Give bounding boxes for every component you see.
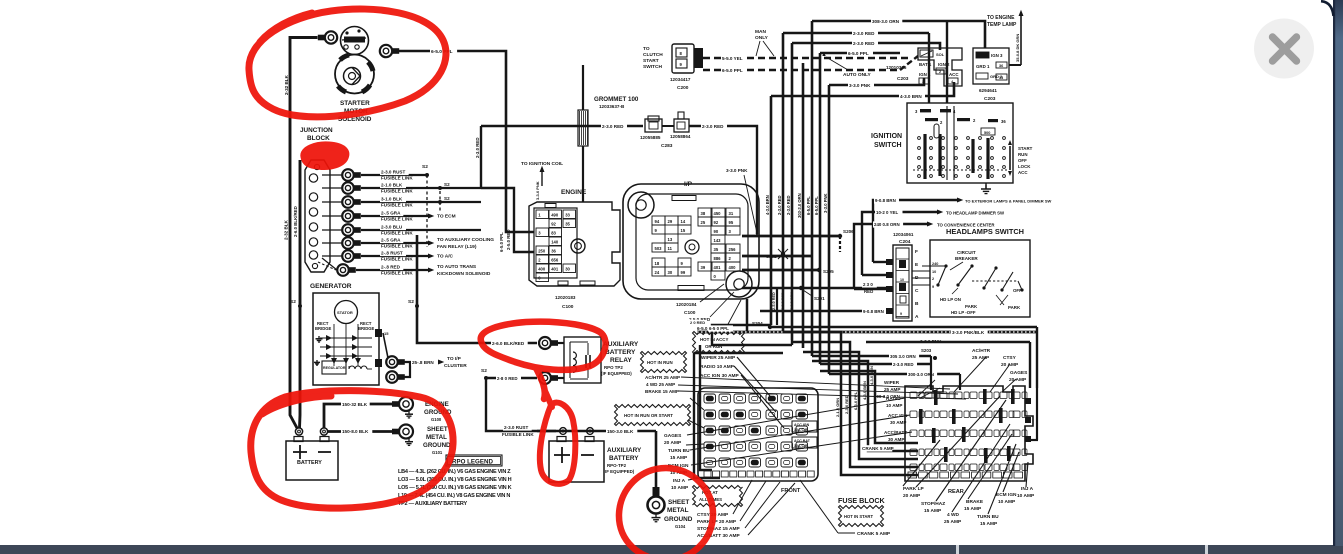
wire fusible link 2-.5 GRA [361, 242, 428, 244]
svg-text:RADIO 10 AMP: RADIO 10 AMP [700, 364, 735, 370]
bottom toolbar bar [0, 545, 1343, 554]
svg-text:CLUTCH: CLUTCH [643, 52, 663, 58]
svg-text:LB4 — 4.3L (262 CU. IN.) V6 GA: LB4 — 4.3L (262 CU. IN.) V6 GAS ENGINE V… [398, 469, 511, 475]
bus wire 3-3.0 PNK vertical [828, 85, 831, 374]
wire 2-32 BLK from starter to battery [290, 38, 318, 429]
ring terminal at starter battery stud [325, 31, 337, 43]
svg-text:30 AMP: 30 AMP [888, 437, 904, 442]
red annotation circle aux battery relay [481, 322, 606, 370]
crank 5 amp leader [800, 480, 838, 533]
connector 12010366 C203 [918, 48, 962, 86]
bus wire 303-3.0 ORN vertical [802, 63, 805, 348]
svg-text:CLUSTER: CLUSTER [444, 363, 467, 369]
svg-text:25-.8 BRN: 25-.8 BRN [412, 360, 434, 365]
fuse block circuit breaker boxes [792, 421, 817, 432]
svg-text:METAL: METAL [426, 434, 447, 441]
svg-text:C100: C100 [562, 304, 574, 310]
svg-text:GROUND: GROUND [664, 516, 693, 523]
svg-text:S2: S2 [290, 299, 296, 305]
node S2 generator left [298, 304, 302, 308]
svg-text:METAL: METAL [667, 507, 689, 514]
svg-text:140: 140 [551, 240, 559, 245]
red annotation circle starter motor [249, 9, 446, 117]
svg-text:3-3.0 PNK/BLK: 3-3.0 PNK/BLK [952, 330, 985, 335]
svg-text:IGN 2: IGN 2 [938, 62, 950, 67]
svg-text:C100: C100 [684, 310, 696, 316]
svg-text:SHEET: SHEET [668, 499, 689, 506]
node S2 relay branch [484, 376, 488, 380]
connector 6294641 C203 [973, 48, 1009, 84]
wire 3-3.0 PNK [829, 78, 924, 85]
svg-text:33: 33 [565, 213, 570, 218]
svg-text:OFF: OFF [1013, 288, 1022, 293]
svg-text:6-5.0 PPL: 6-5.0 PPL [848, 51, 869, 56]
junction block jumper dashed [318, 262, 336, 270]
wire 300-3.0 ORN [829, 373, 960, 375]
svg-text:12055885: 12055885 [640, 135, 661, 140]
svg-text:20 AMP: 20 AMP [1009, 377, 1027, 383]
svg-text:PARK LP: PARK LP [903, 486, 924, 492]
svg-text:STOP/HAZ: STOP/HAZ [921, 501, 945, 507]
junction block body [305, 160, 330, 272]
svg-text:143: 143 [714, 238, 722, 243]
wire 6-5.0 PPL dashed [703, 69, 780, 72]
svg-text:2-5.0 RED: 2-5.0 RED [772, 292, 776, 310]
fusible link ring terminal row 4 [322, 215, 342, 217]
svg-text:HOT IN ACCY: HOT IN ACCY [700, 337, 728, 342]
svg-text:START: START [1018, 146, 1033, 151]
svg-text:FUSIBLE LINK: FUSIBLE LINK [381, 176, 413, 181]
svg-text:15 AMP: 15 AMP [670, 455, 688, 461]
connector 12058864 [674, 119, 689, 132]
svg-text:GENERATOR: GENERATOR [310, 283, 352, 290]
svg-text:TP2 — AUXILIARY BATTERY: TP2 — AUXILIARY BATTERY [398, 501, 467, 507]
svg-text:150-32 BLK: 150-32 BLK [342, 402, 368, 407]
svg-text:2-3.0 RED: 2-3.0 RED [475, 138, 480, 159]
svg-text:30 AMP: 30 AMP [890, 420, 906, 425]
svg-text:S2: S2 [444, 182, 450, 187]
svg-text:BREAKER: BREAKER [955, 256, 978, 261]
I/P output wires [742, 235, 840, 238]
hot in accy or run callout [693, 332, 745, 354]
svg-text:24: 24 [655, 270, 660, 275]
svg-text:AC/HTR: AC/HTR [972, 348, 991, 354]
svg-text:MAN: MAN [755, 29, 766, 35]
aux battery terminal screws [560, 428, 567, 435]
svg-text:SHEET: SHEET [427, 426, 448, 433]
wire junction block left feed 2-6.0 BLK/RED [298, 160, 301, 428]
svg-text:13: 13 [668, 237, 673, 242]
svg-text:JUNCTION: JUNCTION [300, 127, 333, 134]
svg-text:303-3.0 ORN: 303-3.0 ORN [797, 193, 802, 218]
svg-text:4 WD: 4 WD [947, 512, 960, 518]
node S202 [781, 252, 785, 256]
wire 2-6.0 BLK/RED to relay [417, 235, 537, 343]
svg-text:ECM IGN: ECM IGN [996, 492, 1017, 498]
svg-text:450: 450 [714, 211, 722, 216]
auxiliary battery B2 [549, 441, 604, 482]
svg-text:12020184: 12020184 [676, 302, 697, 307]
svg-text:4-3.0 BRN: 4-3.0 BRN [869, 366, 874, 385]
svg-text:94: 94 [655, 219, 660, 224]
svg-text:2: 2 [939, 70, 941, 74]
wire 10-2.0 YEL headlamp dimmer [862, 212, 937, 275]
svg-text:2-3.0 RED: 2-3.0 RED [893, 362, 914, 367]
svg-text:HOT IN RUN: HOT IN RUN [647, 360, 673, 365]
wire down to sheet metal ground G104 [655, 431, 658, 494]
svg-text:6-5.0 PPL: 6-5.0 PPL [806, 196, 811, 215]
svg-text:FUSIBLE LINK: FUSIBLE LINK [381, 271, 413, 276]
bus wire 2-3.0 RED vertical [782, 33, 785, 332]
svg-text:S2: S2 [408, 299, 414, 305]
svg-text:4-3.0 BRN: 4-3.0 BRN [900, 94, 922, 99]
svg-text:TEMP LAMP: TEMP LAMP [987, 22, 1017, 28]
svg-text:150-8.0 BLK: 150-8.0 BLK [342, 429, 369, 434]
svg-text:IF EQUIPPED): IF EQUIPPED) [605, 469, 635, 474]
red annotation scribble junction block [303, 144, 347, 168]
svg-text:95: 95 [729, 220, 734, 225]
wire fusible link 2-.8 RED [356, 269, 428, 271]
svg-text:GAGES: GAGES [664, 433, 682, 439]
svg-text:C200: C200 [677, 85, 689, 91]
bus wire 4-3.0 BRN vertical [770, 96, 773, 325]
svg-text:12020183: 12020183 [555, 295, 576, 300]
svg-text:PARK: PARK [965, 304, 978, 309]
fusible link ring terminal row 3 [322, 201, 342, 203]
svg-text:99: 99 [681, 270, 686, 275]
svg-text:AUXILIARY: AUXILIARY [607, 447, 642, 454]
dashed wire to ignition connector [780, 69, 900, 72]
svg-text:6-5.0 PPL: 6-5.0 PPL [814, 196, 819, 215]
svg-text:10-2 0 YEL: 10-2 0 YEL [876, 210, 898, 215]
svg-text:CIRCUIT: CIRCUIT [957, 250, 976, 255]
svg-text:FUSIBLE LINK: FUSIBLE LINK [381, 244, 413, 249]
svg-text:RELAY: RELAY [610, 357, 632, 364]
svg-text:AUTO ONLY: AUTO ONLY [843, 72, 872, 78]
battery B1 [286, 441, 338, 480]
svg-text:C203: C203 [897, 76, 909, 82]
svg-text:TO ECM: TO ECM [437, 214, 456, 220]
fusible link ring terminal row 5 [322, 229, 342, 231]
svg-text:36: 36 [551, 249, 556, 254]
ring terminal sheet metal ground G104 [648, 497, 665, 514]
svg-text:TO: TO [643, 46, 650, 52]
svg-text:3-3.0 PNK: 3-3.0 PNK [849, 83, 871, 88]
svg-text:2-1.0 ORN: 2-1.0 ORN [835, 398, 840, 417]
svg-text:12058864: 12058864 [670, 134, 691, 139]
svg-text:25 AMP: 25 AMP [884, 387, 900, 392]
svg-text:15: 15 [384, 331, 389, 336]
wire 308-3.0 ORN [812, 21, 985, 48]
svg-text:BATTERY: BATTERY [297, 460, 322, 466]
close button [1254, 19, 1314, 79]
svg-text:15: 15 [681, 228, 686, 233]
svg-text:(IF EQUIPPED): (IF EQUIPPED) [601, 371, 632, 376]
svg-text:92: 92 [551, 222, 556, 227]
svg-text:GROUND: GROUND [423, 442, 451, 449]
fuse block REAR [905, 386, 1033, 481]
node S2 generator right [415, 304, 419, 308]
svg-text:WIPER: WIPER [884, 380, 900, 385]
svg-text:BATTERY: BATTERY [609, 455, 639, 462]
svg-text:92: 92 [714, 220, 719, 225]
svg-text:STARTER: STARTER [340, 100, 370, 107]
svg-text:240: 240 [932, 262, 938, 266]
svg-text:35-0.8 DK GRN: 35-0.8 DK GRN [1015, 34, 1020, 62]
svg-text:2-3.0 RUST: 2-3.0 RUST [381, 170, 405, 175]
wire right side down [770, 326, 1037, 328]
starter motor solenoid [341, 27, 369, 55]
svg-text:10: 10 [932, 270, 936, 274]
hot in run or start callout [615, 405, 691, 426]
bus wire 2-3.0 RED vertical 2 [791, 43, 794, 340]
svg-text:10 AMP: 10 AMP [886, 403, 902, 408]
svg-text:9: 9 [900, 312, 902, 316]
svg-text:240 0.8 ORN: 240 0.8 ORN [874, 222, 900, 227]
svg-text:PARK LP 20 AMP: PARK LP 20 AMP [697, 519, 737, 525]
svg-text:HEADLAMPS SWITCH: HEADLAMPS SWITCH [946, 227, 1024, 236]
fusible link ring terminal row 1 [322, 174, 342, 176]
rectifier diodes [320, 337, 372, 339]
svg-text:TURN BU: TURN BU [668, 448, 690, 454]
generator body [313, 293, 379, 385]
svg-text:F: F [915, 249, 918, 255]
wire 305-3.0 ORN to fuse block [812, 355, 931, 357]
ignition switch ground [985, 183, 987, 189]
wire 25-.8 BRN to I/P cluster [404, 361, 436, 363]
svg-text:CTSY: CTSY [1003, 355, 1017, 361]
svg-text:2-.8 RUST: 2-.8 RUST [381, 251, 403, 256]
svg-text:2 0 RED: 2 0 RED [690, 320, 705, 325]
svg-text:TO ENGINE: TO ENGINE [987, 15, 1015, 21]
svg-text:S203: S203 [921, 348, 932, 353]
svg-text:656: 656 [551, 258, 559, 263]
svg-text:12033637-B: 12033637-B [599, 104, 625, 109]
svg-text:12010366: 12010366 [886, 65, 907, 70]
svg-text:ACC: ACC [1018, 170, 1028, 175]
svg-text:2-3.0 RED: 2-3.0 RED [602, 124, 624, 129]
svg-text:S2: S2 [481, 368, 487, 374]
dashed stub below S2 node [426, 175, 428, 247]
fuse block FRONT [698, 388, 818, 481]
svg-text:33: 33 [999, 76, 1003, 80]
svg-text:TURN BU: TURN BU [977, 514, 999, 520]
wire 2-3.0 RED to C204 [742, 287, 886, 290]
svg-text:4 WD 25 AMP: 4 WD 25 AMP [646, 382, 675, 387]
svg-text:TO A/C: TO A/C [437, 254, 454, 260]
svg-text:WIPER 25 AMP: WIPER 25 AMP [701, 355, 736, 361]
svg-text:AC/HTR 25 AMP: AC/HTR 25 AMP [645, 375, 680, 380]
wire 4-3.0 BRN [771, 82, 954, 96]
svg-text:GRD 1: GRD 1 [976, 64, 990, 69]
RPO legend box [446, 455, 502, 466]
svg-text:3-3.0 PNK: 3-3.0 PNK [823, 193, 828, 213]
wires into ignition switch [928, 33, 930, 103]
svg-text:15 AMP: 15 AMP [980, 521, 998, 527]
battery terminal + [295, 428, 302, 435]
wire 2-3.0 RED lower [792, 43, 940, 50]
ring terminal starter solenoid feed [380, 45, 392, 57]
svg-text:RPO-TP2: RPO-TP2 [607, 463, 627, 468]
svg-text:90: 90 [714, 229, 719, 234]
hot in run callout [641, 352, 687, 373]
wire 2-3.0 RUST fusible link [503, 424, 532, 430]
svg-text:886: 886 [714, 256, 722, 261]
wire 2-8.0 RED to relay lower [486, 377, 537, 379]
svg-text:KICKDOWN SOLENOID: KICKDOWN SOLENOID [437, 271, 491, 277]
svg-text:ACC: ACC [949, 72, 959, 77]
rear block leader lines [916, 396, 1000, 487]
svg-text:2-.8 RED: 2-.8 RED [381, 265, 401, 270]
wire 150-8.0 BLK to sheet metal ground [327, 430, 395, 433]
svg-text:490: 490 [551, 213, 559, 218]
svg-text:3-3.0 PNK: 3-3.0 PNK [535, 181, 540, 200]
svg-text:GROMMET 100: GROMMET 100 [594, 96, 639, 103]
svg-text:G101: G101 [432, 450, 443, 455]
wire I/P bottom right down [746, 299, 749, 331]
svg-text:400: 400 [538, 267, 546, 272]
fuse feed verticals [783, 332, 918, 475]
fusible link ring terminal row 2 [322, 187, 342, 189]
ring terminal relay bottom [539, 372, 551, 384]
ignition switch contact bars [923, 134, 926, 179]
svg-text:25: 25 [701, 220, 706, 225]
svg-text:401: 401 [551, 267, 559, 272]
generator ring terminals [386, 356, 398, 368]
svg-text:2-3.0 RED: 2-3.0 RED [853, 31, 875, 36]
wire 2-3.0 RED to fuse block [820, 363, 931, 365]
svg-text:HOT IN START: HOT IN START [844, 514, 873, 519]
svg-text:FRONT: FRONT [781, 488, 801, 494]
svg-text:FAN RELAY (L19): FAN RELAY (L19) [437, 244, 477, 250]
svg-text:C283: C283 [661, 143, 673, 149]
svg-text:35: 35 [714, 247, 719, 252]
wire 9-0.8 BRN exterior lamps [873, 200, 957, 262]
lower bus verticals [776, 288, 778, 325]
svg-text:SWITCH: SWITCH [643, 64, 662, 70]
wire 150-32 BLK to engine ground [324, 404, 395, 428]
svg-text:25 AMP: 25 AMP [944, 519, 962, 525]
svg-text:503: 503 [655, 246, 663, 251]
svg-text:11: 11 [668, 246, 673, 251]
svg-text:10 AMP: 10 AMP [671, 485, 689, 491]
svg-text:SOL: SOL [936, 52, 945, 57]
svg-text:500: 500 [984, 131, 990, 135]
svg-text:5-5.0 YEL: 5-5.0 YEL [722, 56, 743, 61]
svg-text:20 AMP: 20 AMP [664, 440, 682, 446]
wire fusible link 2-.5 GRA [361, 215, 428, 217]
svg-text:IGNITION: IGNITION [871, 133, 902, 140]
rear block right edge pads [1025, 398, 1031, 404]
svg-text:FUSIBLE LINK: FUSIBLE LINK [381, 257, 413, 262]
switch levers [938, 266, 946, 285]
svg-text:35: 35 [565, 222, 570, 227]
svg-text:6-5.0 PPL: 6-5.0 PPL [722, 68, 743, 73]
svg-text:12034417: 12034417 [670, 77, 691, 82]
svg-text:2-32 BLK: 2-32 BLK [284, 74, 289, 95]
svg-text:B: B [915, 301, 919, 307]
svg-text:ACC BAT: ACC BAT [794, 439, 811, 443]
wire fusible link 2-.8 RUST [361, 255, 428, 257]
svg-text:2-3.0 RED: 2-3.0 RED [777, 195, 782, 215]
svg-text:TO I/P: TO I/P [447, 356, 462, 362]
svg-text:STOP/HAZ 15 AMP: STOP/HAZ 15 AMP [697, 526, 740, 532]
svg-text:BRAKE 15 AMP: BRAKE 15 AMP [645, 389, 679, 394]
svg-text:10: 10 [900, 278, 904, 282]
svg-text:15 AMP: 15 AMP [964, 506, 982, 512]
svg-text:20 AMP: 20 AMP [1001, 362, 1019, 368]
fusible link ring terminal row 7 [322, 255, 342, 257]
generator output studs [375, 329, 382, 337]
wire 3-1.0 PNK/BLK hatched bottom [697, 331, 1037, 334]
svg-text:TO AUXILIARY COOLING: TO AUXILIARY COOLING [437, 237, 494, 243]
bus wire 6-5.0 PPL vertical 2 [819, 53, 822, 364]
svg-text:ACC IGN 30 AMP: ACC IGN 30 AMP [700, 373, 740, 379]
wire fusible link 3-1.0 BLK [361, 201, 481, 203]
svg-text:2 3 0: 2 3 0 [863, 282, 873, 287]
svg-text:2: 2 [932, 277, 934, 281]
wire fusible link 2-1.0 BLK [361, 187, 481, 189]
svg-text:PARK: PARK [1008, 305, 1021, 310]
ring terminal engine ground [399, 397, 413, 411]
fusible link ring terminal row 8 [322, 258, 337, 270]
svg-text:2-6.0 BLK/RED: 2-6.0 BLK/RED [293, 206, 298, 237]
svg-text:308-3.0 ORN: 308-3.0 ORN [872, 19, 900, 24]
svg-text:10 AMP: 10 AMP [998, 499, 1016, 505]
svg-text:2-3.0 RED: 2-3.0 RED [844, 395, 849, 414]
svg-text:GAGES: GAGES [1010, 370, 1028, 376]
wire 2-3.0 RED to bus [662, 125, 674, 127]
svg-text:2-.5 GRA: 2-.5 GRA [381, 211, 401, 216]
svg-text:FUSIBLE LINK: FUSIBLE LINK [381, 203, 413, 208]
ring terminal sheet metal ground G101 [399, 425, 413, 439]
svg-text:31: 31 [729, 211, 734, 216]
svg-text:12034061: 12034061 [893, 232, 914, 237]
svg-text:401: 401 [714, 265, 722, 270]
svg-text:300-3.0 ORN: 300-3.0 ORN [874, 394, 900, 399]
svg-text:FUSIBLE LINK: FUSIBLE LINK [502, 432, 534, 437]
svg-text:LO5 — 5.7L (350 CU. IN.) V8 GA: LO5 — 5.7L (350 CU. IN.) V8 GAS ENGINE V… [398, 485, 512, 491]
red annotation oval aux battery plus [540, 403, 576, 484]
field coil [349, 366, 367, 369]
svg-text:BRIDGE: BRIDGE [315, 326, 331, 331]
svg-text:S205: S205 [823, 269, 834, 274]
svg-text:INJ A: INJ A [673, 478, 686, 484]
svg-text:2-3.0 BLU: 2-3.0 BLU [381, 225, 403, 230]
rounded top-right corner of sheet [1321, 1, 1334, 16]
svg-text:TO EXTERIOR LAMPS & PANEL DIMM: TO EXTERIOR LAMPS & PANEL DIMMER SW [965, 199, 1052, 204]
svg-text:2-6.0 BLK/RED: 2-6.0 BLK/RED [492, 341, 525, 346]
svg-text:S2: S2 [422, 164, 428, 170]
svg-text:G104: G104 [675, 524, 686, 529]
svg-text:CRANK 5 AMP: CRANK 5 AMP [862, 446, 894, 451]
svg-text:RPO LEGEND: RPO LEGEND [452, 459, 493, 466]
svg-text:20 AMP: 20 AMP [903, 493, 921, 499]
wire 5-5.0 YEL dashed [703, 57, 909, 60]
svg-text:2-3.0 RED: 2-3.0 RED [702, 124, 724, 129]
svg-text:30: 30 [565, 267, 570, 272]
svg-text:2-5.0 RED: 2-5.0 RED [506, 230, 511, 251]
svg-text:2-3.0 RED: 2-3.0 RED [853, 41, 875, 46]
svg-text:3: 3 [922, 80, 924, 84]
connector 12055885 [645, 119, 662, 132]
svg-text:S201: S201 [814, 296, 825, 301]
svg-text:400: 400 [729, 265, 737, 270]
svg-text:CRANK 5 AMP: CRANK 5 AMP [857, 531, 891, 537]
svg-text:2-1.0 ORN: 2-1.0 ORN [790, 292, 794, 310]
svg-text:250: 250 [538, 249, 546, 254]
svg-text:9-0.8 BRN: 9-0.8 BRN [875, 198, 896, 203]
